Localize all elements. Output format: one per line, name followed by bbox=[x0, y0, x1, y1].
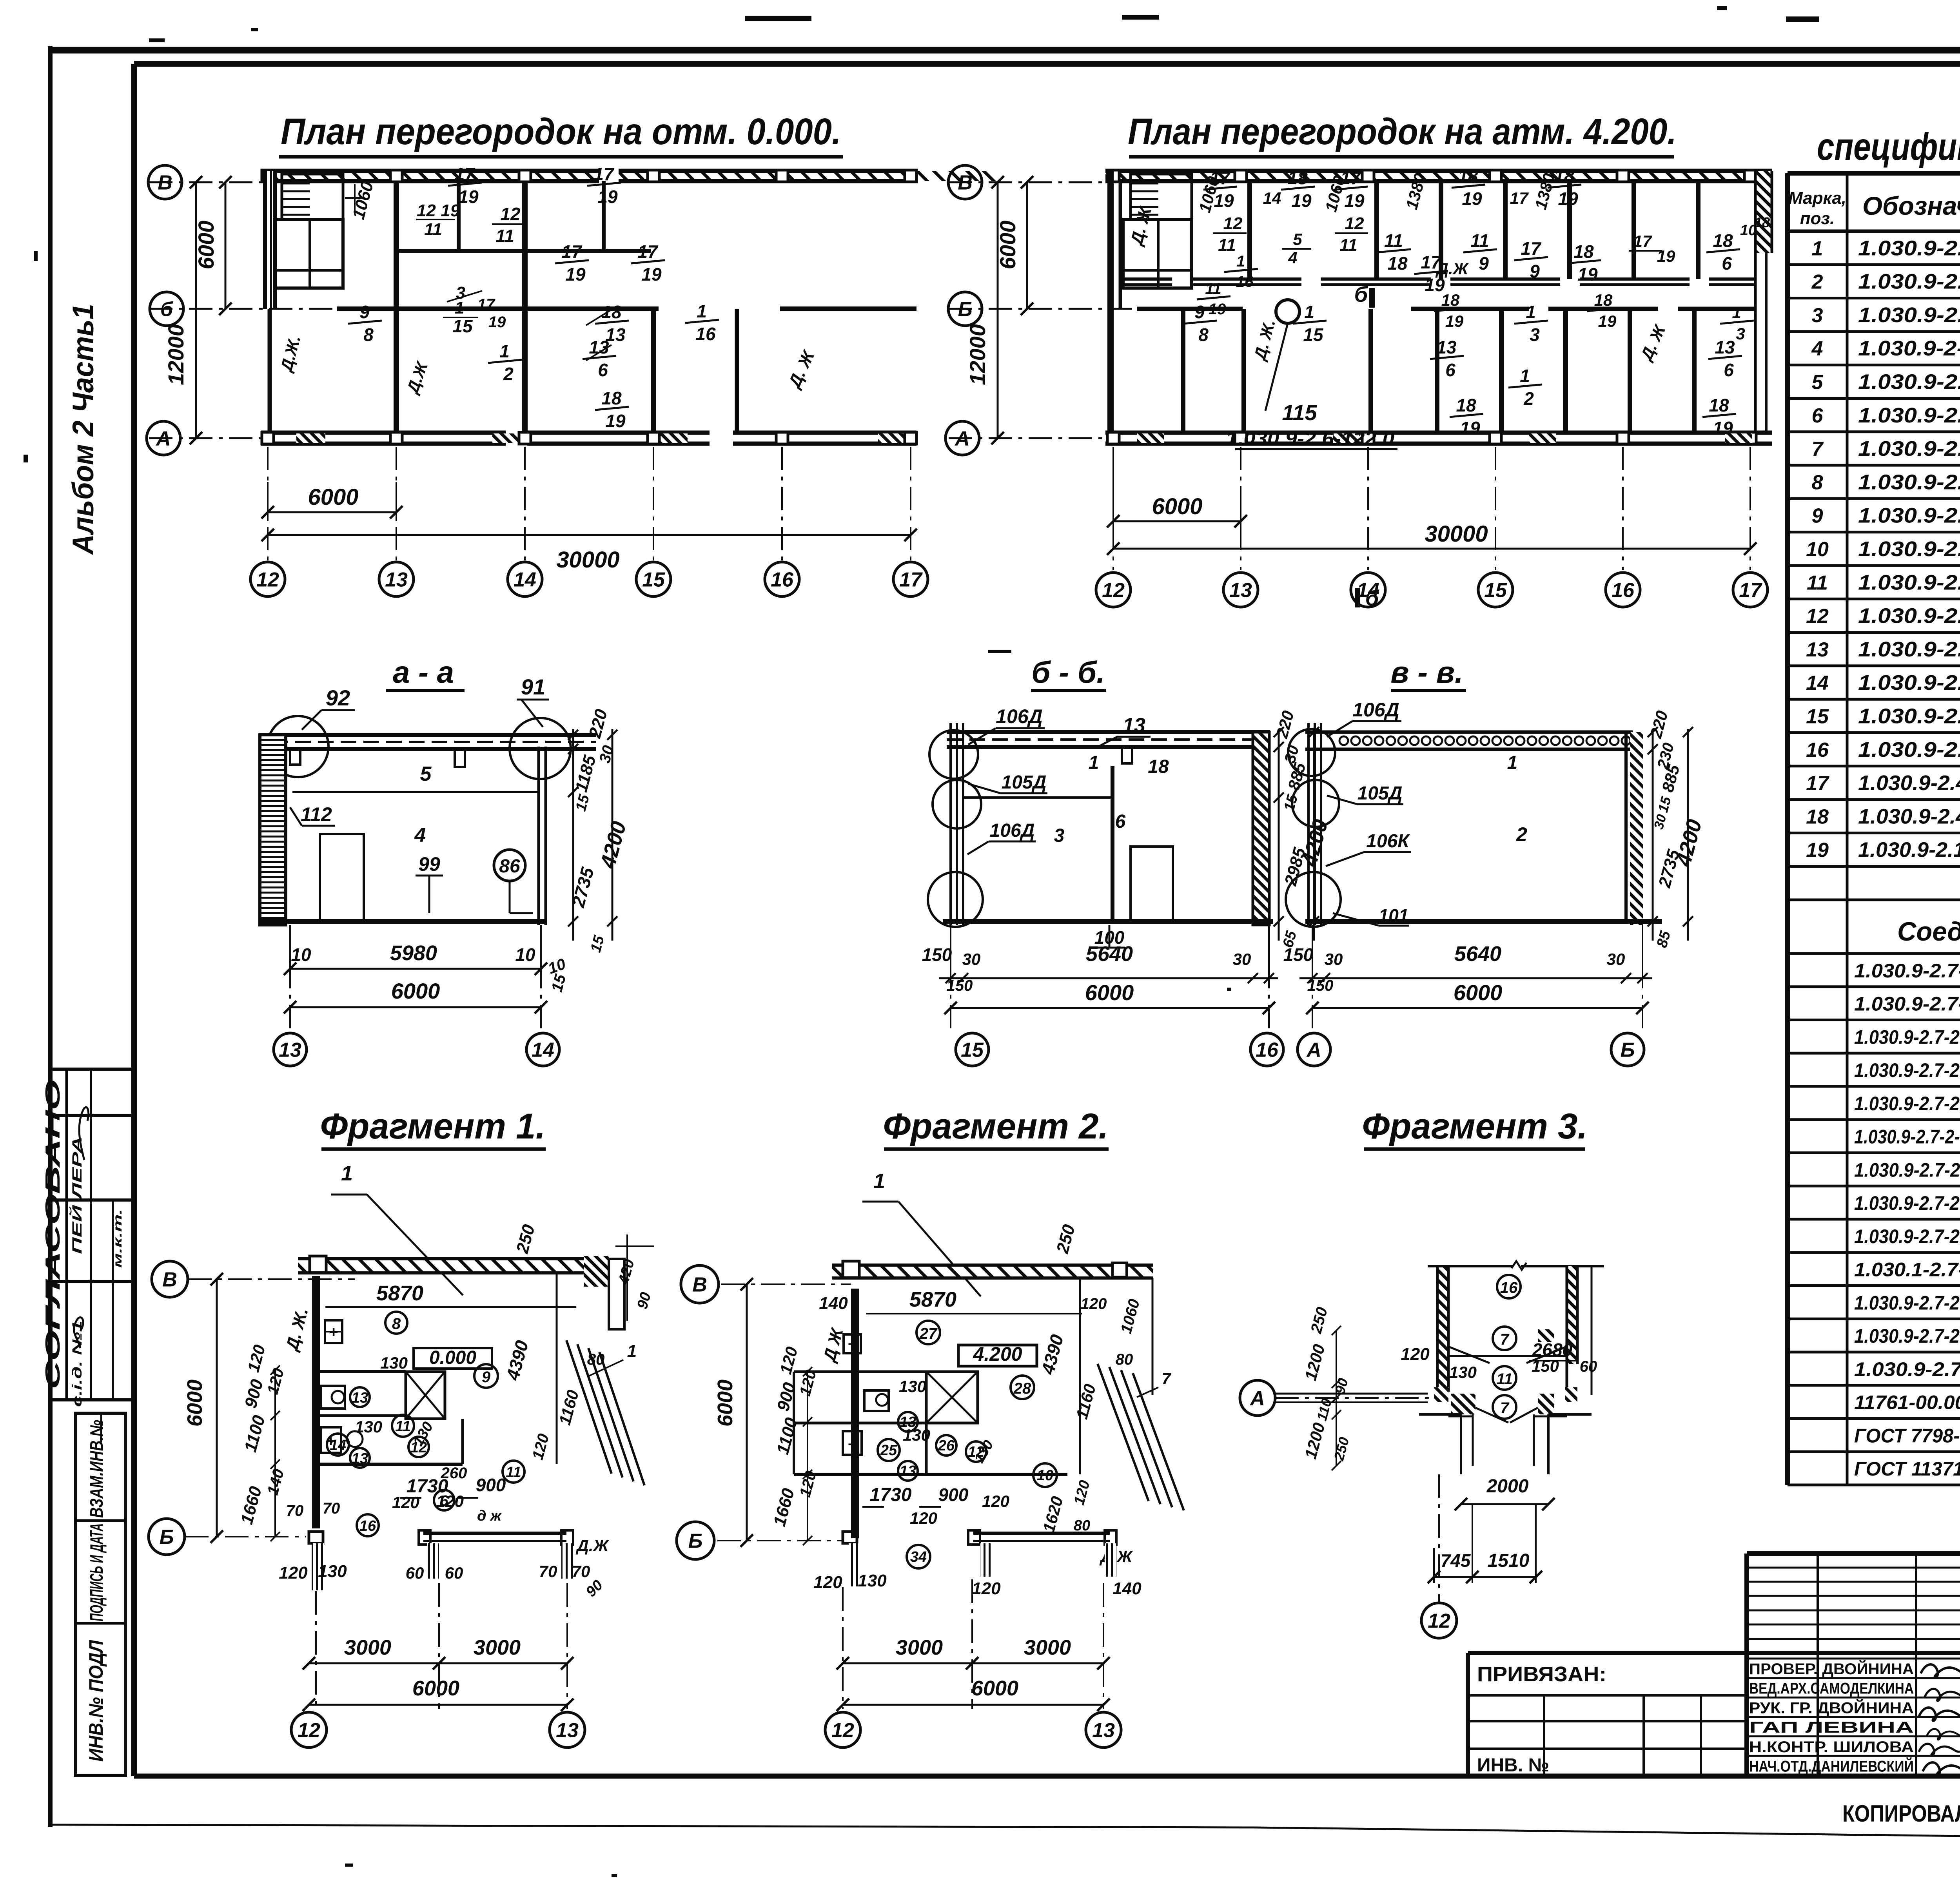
svg-text:6000: 6000 bbox=[183, 1380, 207, 1427]
svg-text:18: 18 bbox=[1806, 805, 1829, 828]
svg-text:1.030.9-2.1-01.0: 1.030.9-2.1-01.0 bbox=[1858, 270, 1960, 294]
section v-v right dimension stack bbox=[1652, 729, 1654, 941]
svg-text:80: 80 bbox=[587, 1351, 605, 1368]
svg-text:105Д: 105Д bbox=[1002, 772, 1047, 793]
plan1 left dimension 6000 bbox=[225, 182, 227, 309]
svg-text:12000: 12000 bbox=[163, 324, 188, 385]
svg-text:1510: 1510 bbox=[1488, 1550, 1530, 1571]
svg-text:745: 745 bbox=[1441, 1550, 1471, 1571]
fragment 1 fixtures bbox=[325, 1320, 342, 1343]
svg-text:1.030.9-2.7-2-0.17.0: 1.030.9-2.7-2-0.17.0 bbox=[1854, 993, 1960, 1015]
svg-text:1.030.9-2.4-12КМ: 1.030.9-2.4-12КМ bbox=[1858, 805, 1960, 828]
svg-text:1.030.9-2.7-2-0.16.0: 1.030.9-2.7-2-0.16.0 bbox=[1854, 960, 1960, 982]
svg-text:14: 14 bbox=[1806, 672, 1829, 694]
svg-text:13: 13 bbox=[1092, 1719, 1115, 1742]
fragment 3 left chain bbox=[1336, 1331, 1337, 1466]
section v-v bottom dims bbox=[1312, 925, 1313, 988]
svg-text:19: 19 bbox=[1344, 190, 1365, 211]
svg-text:12: 12 bbox=[1806, 605, 1829, 628]
svg-text:19: 19 bbox=[605, 411, 626, 431]
svg-text:17: 17 bbox=[593, 164, 615, 184]
section b-b ceiling slab bbox=[947, 730, 1270, 734]
svg-text:12: 12 bbox=[1345, 214, 1364, 233]
svg-text:17: 17 bbox=[561, 241, 583, 262]
svg-text:б: б bbox=[1365, 586, 1379, 610]
svg-text:10: 10 bbox=[1037, 1467, 1053, 1484]
svg-text:1.030.9-2.1-07.0: 1.030.9-2.1-07.0 bbox=[1858, 571, 1960, 594]
svg-text:13: 13 bbox=[900, 1463, 916, 1479]
fragment 1 left dim 6000 bbox=[216, 1279, 218, 1537]
svg-text:3000: 3000 bbox=[1024, 1636, 1071, 1659]
fragment 3 corridor below bbox=[1460, 1414, 1462, 1474]
svg-text:11: 11 bbox=[424, 220, 442, 239]
section a-a left wall bbox=[260, 735, 286, 925]
svg-text:900: 900 bbox=[938, 1485, 969, 1505]
svg-text:12: 12 bbox=[831, 1719, 854, 1742]
fragment 1 circled 8 9 bbox=[385, 1312, 407, 1334]
svg-text:1.030.9-2.1-05.0: 1.030.9-2.1-05.0 bbox=[1858, 370, 1960, 394]
svg-text:+: + bbox=[329, 1323, 338, 1341]
svg-text:14: 14 bbox=[330, 1437, 346, 1454]
svg-text:Д.Ж: Д.Ж bbox=[576, 1536, 610, 1555]
fragment 1 bottom dims bbox=[315, 1591, 317, 1709]
svg-text:17: 17 bbox=[1521, 238, 1542, 259]
svg-text:4.200: 4.200 bbox=[973, 1343, 1022, 1365]
svg-text:1.030.9-2.7-2-0.16.0-06: 1.030.9-2.7-2-0.16.0-06 bbox=[1854, 1093, 1960, 1115]
svg-text:17: 17 bbox=[637, 241, 659, 262]
svg-text:ГАП ЛЕВИНА: ГАП ЛЕВИНА bbox=[1749, 1719, 1914, 1736]
svg-text:10: 10 bbox=[515, 944, 535, 965]
svg-text:Фрагмент 2.: Фрагмент 2. bbox=[883, 1106, 1109, 1146]
svg-text:9: 9 bbox=[1530, 261, 1540, 281]
svg-text:17: 17 bbox=[1633, 232, 1652, 250]
svg-text:2: 2 bbox=[1523, 388, 1534, 409]
svg-text:16: 16 bbox=[1612, 579, 1635, 602]
svg-text:НАЧ.ОТД.ДАНИЛЕВСКИЙ: НАЧ.ОТД.ДАНИЛЕВСКИЙ bbox=[1749, 1757, 1914, 1775]
fragment 1 left dim chain bbox=[274, 1370, 276, 1537]
svg-text:15: 15 bbox=[642, 569, 665, 591]
section v-v right wall bbox=[1624, 732, 1628, 921]
svg-text:18: 18 bbox=[601, 388, 622, 408]
svg-text:КОПИРОВАЛ: ЛОГИНОВА: КОПИРОВАЛ: ЛОГИНОВА bbox=[1842, 1800, 1960, 1827]
svg-text:15: 15 bbox=[961, 1039, 984, 1062]
svg-text:1.030.9-2.7-2-0.16.0-02: 1.030.9-2.7-2-0.16.0-02 bbox=[1854, 1026, 1960, 1048]
svg-text:4: 4 bbox=[1288, 248, 1297, 267]
svg-text:Марка,: Марка, bbox=[1788, 189, 1846, 208]
svg-text:ГОСТ 11371-78: ГОСТ 11371-78 bbox=[1854, 1458, 1960, 1480]
svg-text:19: 19 bbox=[1214, 190, 1234, 211]
fragment 2 top wall bbox=[832, 1265, 1153, 1278]
plan1 left dimension 12000 bbox=[195, 182, 197, 438]
svg-text:0.000: 0.000 bbox=[429, 1347, 476, 1368]
svg-text:18: 18 bbox=[1456, 395, 1476, 415]
svg-text:106Д: 106Д bbox=[996, 705, 1043, 727]
svg-text:9: 9 bbox=[1194, 302, 1205, 322]
svg-text:17: 17 bbox=[1510, 189, 1529, 207]
svg-text:17: 17 bbox=[1210, 168, 1231, 188]
svg-text:7: 7 bbox=[1812, 438, 1824, 460]
svg-text:19: 19 bbox=[1209, 301, 1226, 318]
plan2 stair cluster bbox=[1123, 219, 1192, 288]
svg-text:17: 17 bbox=[1806, 772, 1829, 795]
svg-text:1: 1 bbox=[1304, 302, 1314, 322]
svg-text:16: 16 bbox=[1806, 739, 1829, 761]
plan1 left axis circle A bbox=[147, 421, 180, 455]
svg-text:13: 13 bbox=[1436, 337, 1457, 357]
fragment 3 axis A bbox=[1240, 1380, 1275, 1416]
svg-text:7: 7 bbox=[1500, 1331, 1510, 1348]
svg-text:6000: 6000 bbox=[391, 979, 440, 1003]
svg-text:5: 5 bbox=[420, 763, 432, 785]
svg-text:План перегородок на отм. 0.000: План перегородок на отм. 0.000. bbox=[281, 111, 841, 152]
svg-text:В: В bbox=[958, 172, 973, 194]
section b-b partition and door bbox=[1111, 766, 1114, 921]
section b-b right wall bbox=[1253, 732, 1269, 925]
svg-text:3000: 3000 bbox=[344, 1636, 391, 1659]
svg-text:12: 12 bbox=[1428, 1610, 1450, 1633]
svg-text:1.030.9-2.7-2-1.214.0-01: 1.030.9-2.7-2-1.214.0-01 bbox=[1854, 1126, 1960, 1148]
svg-text:17: 17 bbox=[1340, 168, 1361, 188]
svg-text:120: 120 bbox=[279, 1563, 308, 1583]
svg-text:18: 18 bbox=[1441, 291, 1460, 309]
plan2 left axis circles bbox=[948, 165, 982, 199]
svg-text:11: 11 bbox=[1205, 280, 1221, 297]
outer sheet border top bbox=[48, 47, 1960, 54]
fragment 2 fixtures bbox=[844, 1334, 861, 1353]
svg-text:1.030.9-2.1-09.0: 1.030.9-2.1-09.0 bbox=[1858, 604, 1960, 628]
svg-text:План перегородок на атм. 4.200: План перегородок на атм. 4.200. bbox=[1128, 111, 1677, 152]
svg-text:6000: 6000 bbox=[1085, 980, 1134, 1005]
svg-text:106Д: 106Д bbox=[1352, 699, 1399, 721]
svg-text:150: 150 bbox=[1532, 1357, 1559, 1375]
svg-text:140: 140 bbox=[1112, 1579, 1142, 1598]
svg-text:60: 60 bbox=[445, 1564, 463, 1582]
svg-text:25: 25 bbox=[880, 1442, 897, 1459]
svg-text:13: 13 bbox=[1806, 638, 1829, 661]
svg-text:30: 30 bbox=[962, 950, 981, 968]
svg-text:б: б bbox=[160, 298, 174, 321]
section v-v floor bbox=[1305, 919, 1662, 924]
svg-text:2000: 2000 bbox=[1486, 1476, 1529, 1497]
svg-text:16: 16 bbox=[359, 1518, 376, 1534]
svg-text:1.030.9-2.1-07.0: 1.030.9-2.1-07.0 bbox=[1858, 470, 1960, 494]
svg-text:105Д: 105Д bbox=[1357, 783, 1403, 804]
svg-text:11: 11 bbox=[1807, 571, 1828, 594]
svg-text:6: 6 bbox=[598, 360, 608, 380]
svg-text:12: 12 bbox=[256, 569, 279, 591]
svg-text:РУК. ГР. ДВОЙНИНА: РУК. ГР. ДВОЙНИНА bbox=[1749, 1699, 1914, 1717]
svg-text:1: 1 bbox=[455, 298, 464, 317]
svg-text:Д.Ж: Д.Ж bbox=[1436, 259, 1469, 278]
section a-a door bbox=[320, 834, 364, 921]
svg-text:30: 30 bbox=[1607, 950, 1625, 968]
fragment 1 partitions bbox=[316, 1370, 406, 1373]
svg-text:16: 16 bbox=[771, 569, 794, 591]
svg-text:120: 120 bbox=[972, 1579, 1001, 1598]
svg-text:9: 9 bbox=[1812, 505, 1823, 528]
svg-text:12 19: 12 19 bbox=[417, 201, 460, 220]
svg-text:150: 150 bbox=[1307, 977, 1334, 994]
svg-text:1.030.9-2.1-01.0: 1.030.9-2.1-01.0 bbox=[1858, 738, 1960, 761]
fragment 3 circled 11 bbox=[1493, 1366, 1516, 1390]
svg-text:112: 112 bbox=[301, 803, 332, 825]
fragment 2 left dim chain bbox=[807, 1372, 808, 1541]
svg-text:8: 8 bbox=[1812, 471, 1823, 494]
svg-text:13: 13 bbox=[279, 1039, 301, 1062]
svg-text:13: 13 bbox=[352, 1450, 368, 1467]
svg-text:130: 130 bbox=[380, 1354, 408, 1372]
svg-text:14: 14 bbox=[514, 569, 536, 591]
fragment 1 elevation 0.000 bbox=[414, 1348, 492, 1369]
svg-text:11: 11 bbox=[495, 226, 514, 246]
section b-b right dimension stack bbox=[1278, 729, 1280, 941]
fragment 2 axis circle B bbox=[677, 1522, 714, 1559]
fragment 3 chevron joints bbox=[1448, 1347, 1490, 1363]
svg-text:Фрагмент 1.: Фрагмент 1. bbox=[320, 1106, 546, 1146]
svg-text:3000: 3000 bbox=[474, 1636, 521, 1659]
plan2 bottom dimension 6000 bbox=[1113, 520, 1241, 522]
svg-text:19: 19 bbox=[1598, 312, 1617, 330]
svg-text:1: 1 bbox=[1732, 303, 1741, 322]
svg-text:30000: 30000 bbox=[1425, 521, 1488, 547]
svg-text:18: 18 bbox=[1713, 230, 1733, 251]
svg-text:1.030.9-2.1-06.0: 1.030.9-2.1-06.0 bbox=[1858, 236, 1960, 260]
svg-text:1: 1 bbox=[499, 341, 510, 361]
svg-text:19: 19 bbox=[488, 314, 506, 331]
section v-v left column bbox=[1307, 723, 1310, 925]
svg-text:Обозначение: Обозначение bbox=[1862, 191, 1960, 220]
svg-text:14: 14 bbox=[532, 1039, 554, 1062]
svg-text:130: 130 bbox=[899, 1377, 926, 1396]
svg-text:16: 16 bbox=[1500, 1279, 1518, 1296]
svg-text:1: 1 bbox=[873, 1169, 885, 1193]
fragment 1 bottom axis circles bbox=[291, 1712, 327, 1748]
svg-text:поз.: поз. bbox=[1800, 209, 1835, 228]
svg-text:3: 3 bbox=[1812, 304, 1823, 327]
svg-text:15: 15 bbox=[1303, 324, 1324, 345]
fragment 1 circled numbers cluster bbox=[350, 1387, 370, 1407]
svg-text:13: 13 bbox=[589, 337, 609, 357]
svg-text:18: 18 bbox=[1458, 166, 1478, 186]
svg-text:150: 150 bbox=[922, 944, 952, 965]
fragment 2 left dim 6000 bbox=[746, 1284, 748, 1541]
section v-v axis circles bbox=[1312, 925, 1313, 1032]
fragment 3 circled 16 bbox=[1497, 1275, 1521, 1298]
svg-text:11: 11 bbox=[1218, 236, 1236, 255]
svg-text:ИНВ.№ ПОДЛ: ИНВ.№ ПОДЛ bbox=[85, 1639, 107, 1762]
svg-text:1: 1 bbox=[1526, 302, 1536, 322]
svg-text:3: 3 bbox=[1054, 825, 1065, 846]
svg-text:11: 11 bbox=[1384, 230, 1403, 251]
svg-text:13: 13 bbox=[1715, 337, 1735, 357]
drawing frame bbox=[134, 61, 1960, 67]
svg-text:13: 13 bbox=[1229, 579, 1252, 602]
fragment 1 axis B row bbox=[309, 1532, 323, 1543]
fragment 3 bottom axis circle 12 bbox=[1438, 1474, 1440, 1602]
svg-text:1: 1 bbox=[341, 1162, 353, 1185]
svg-text:5: 5 bbox=[1812, 371, 1824, 394]
svg-text:30: 30 bbox=[1325, 950, 1343, 968]
plan1 partitions bbox=[394, 181, 399, 433]
svg-text:18: 18 bbox=[1387, 253, 1408, 274]
svg-text:А: А bbox=[954, 428, 970, 450]
svg-text:1: 1 bbox=[697, 301, 707, 321]
svg-text:В: В bbox=[692, 1274, 707, 1296]
svg-text:120: 120 bbox=[813, 1573, 842, 1592]
svg-text:Б: Б bbox=[1621, 1039, 1635, 1062]
plan2 lower partitions bbox=[1181, 309, 1185, 433]
svg-text:13: 13 bbox=[556, 1719, 579, 1742]
svg-text:18: 18 bbox=[1709, 395, 1729, 415]
svg-text:120: 120 bbox=[1081, 1295, 1107, 1312]
svg-text:6000: 6000 bbox=[995, 221, 1020, 270]
plan1 left axis circle B bbox=[150, 292, 183, 326]
fragment 2 axis circle V bbox=[681, 1265, 719, 1303]
svg-text:28: 28 bbox=[1013, 1380, 1031, 1397]
svg-text:18: 18 bbox=[1287, 168, 1308, 188]
svg-text:1: 1 bbox=[1520, 366, 1530, 386]
svg-text:130: 130 bbox=[355, 1418, 382, 1436]
svg-text:19: 19 bbox=[1657, 247, 1675, 265]
fragment 2 right side stair hatch bbox=[1079, 1278, 1081, 1474]
svg-text:ПОДПИСЬ И ДАТА: ПОДПИСЬ И ДАТА bbox=[86, 1523, 107, 1621]
svg-text:6000: 6000 bbox=[194, 221, 218, 270]
svg-text:1.030.9-2.7-2-0.19.0-03: 1.030.9-2.7-2-0.19.0-03 bbox=[1854, 1225, 1960, 1247]
fragment 1 top wall bbox=[298, 1259, 608, 1273]
svg-text:А: А bbox=[1306, 1039, 1321, 1062]
svg-text:6000: 6000 bbox=[412, 1677, 459, 1700]
svg-text:1.030.9-2.7-2-0.33.0-03: 1.030.9-2.7-2-0.33.0-03 bbox=[1854, 1292, 1960, 1314]
svg-text:11761-00.00.000СБ: 11761-00.00.000СБ bbox=[1854, 1392, 1960, 1414]
svg-text:ИНВ. №: ИНВ. № bbox=[1477, 1755, 1549, 1776]
fragment 2 bottom axis circles bbox=[825, 1712, 860, 1748]
svg-text:Б: Б bbox=[688, 1530, 703, 1553]
svg-text:в - в.: в - в. bbox=[1390, 655, 1463, 689]
fragment 2 bottom dims bbox=[842, 1587, 844, 1709]
svg-text:10: 10 bbox=[1806, 538, 1829, 561]
section b-b floor bbox=[943, 919, 1273, 924]
svg-text:8: 8 bbox=[1198, 324, 1209, 345]
svg-text:91: 91 bbox=[521, 674, 545, 699]
svg-text:13: 13 bbox=[352, 1390, 368, 1406]
section a-a circled 86 bbox=[494, 850, 525, 881]
svg-text:150: 150 bbox=[1283, 944, 1314, 965]
svg-text:2: 2 bbox=[1516, 823, 1527, 845]
svg-text:1: 1 bbox=[627, 1341, 637, 1361]
left stamp strip (inv numbers) bbox=[75, 1413, 125, 1775]
svg-text:70: 70 bbox=[539, 1562, 557, 1581]
svg-text:106Д: 106Д bbox=[990, 820, 1035, 841]
title block signature grid bbox=[1747, 1567, 1960, 1569]
svg-text:8: 8 bbox=[363, 324, 374, 345]
fragment 1 axis circle V bbox=[152, 1261, 188, 1297]
specification table grid bbox=[1788, 171, 1960, 176]
section a-a floor bbox=[260, 919, 546, 924]
svg-text:6000: 6000 bbox=[1152, 494, 1202, 519]
svg-text:А: А bbox=[1249, 1387, 1265, 1410]
svg-text:12: 12 bbox=[1102, 579, 1125, 602]
svg-text:7: 7 bbox=[1161, 1369, 1171, 1388]
svg-text:19: 19 bbox=[641, 264, 662, 285]
svg-text:6000: 6000 bbox=[308, 484, 358, 510]
svg-text:19: 19 bbox=[1445, 312, 1464, 330]
svg-text:12: 12 bbox=[298, 1719, 320, 1742]
plan1 bottom wall (axis A) bbox=[261, 431, 506, 435]
svg-text:с.і.д. №1: с.і.д. №1 bbox=[70, 1321, 85, 1407]
svg-text:2: 2 bbox=[1811, 271, 1823, 294]
svg-text:ПРИВЯЗАН:: ПРИВЯЗАН: bbox=[1477, 1662, 1606, 1686]
svg-text:120: 120 bbox=[1401, 1345, 1430, 1364]
svg-text:1.030.9-2.1-11.0-01: 1.030.9-2.1-11.0-01 bbox=[1858, 838, 1960, 862]
svg-text:ГОСТ 7798-70: ГОСТ 7798-70 bbox=[1854, 1425, 1960, 1447]
svg-text:ПРОВЕР. ДВОЙНИНА: ПРОВЕР. ДВОЙНИНА bbox=[1749, 1660, 1914, 1678]
svg-text:12: 12 bbox=[1223, 214, 1243, 233]
fragment 2 elevation 4.200 bbox=[958, 1345, 1037, 1366]
svg-text:13: 13 bbox=[385, 569, 408, 591]
svg-text:1.030.9-2.1-09.0: 1.030.9-2.1-09.0 bbox=[1858, 504, 1960, 528]
svg-text:99: 99 bbox=[418, 853, 440, 875]
svg-text:11: 11 bbox=[395, 1418, 410, 1435]
svg-text:б - б.: б - б. bbox=[1031, 655, 1105, 689]
svg-text:В: В bbox=[162, 1269, 177, 1291]
svg-text:120: 120 bbox=[436, 1492, 464, 1510]
svg-text:19: 19 bbox=[565, 264, 586, 285]
svg-text:130: 130 bbox=[318, 1562, 347, 1581]
svg-text:16: 16 bbox=[1236, 273, 1254, 290]
svg-text:120: 120 bbox=[982, 1492, 1009, 1510]
fragment 2 room cluster bbox=[794, 1370, 926, 1373]
title block signatures bbox=[1921, 1664, 1960, 1678]
svg-text:70: 70 bbox=[323, 1500, 340, 1517]
svg-text:15: 15 bbox=[1806, 705, 1829, 728]
svg-text:19: 19 bbox=[458, 187, 479, 207]
svg-text:Фрагмент 3.: Фрагмент 3. bbox=[1362, 1106, 1588, 1146]
svg-text:13: 13 bbox=[1123, 714, 1145, 737]
svg-text:3: 3 bbox=[1736, 324, 1745, 343]
svg-text:92: 92 bbox=[326, 685, 350, 710]
svg-text:19: 19 bbox=[1462, 189, 1482, 209]
svg-text:30000: 30000 bbox=[556, 547, 619, 573]
svg-text:спецификация сборных перегород: спецификация сборных перегородок. bbox=[1817, 125, 1960, 168]
svg-text:11: 11 bbox=[1470, 230, 1489, 251]
svg-text:б: б bbox=[1354, 282, 1368, 306]
svg-text:1.030.9-2.7-2-0.53.0-01: 1.030.9-2.7-2-0.53.0-01 bbox=[1854, 1325, 1960, 1347]
svg-text:6: 6 bbox=[1115, 811, 1126, 832]
svg-text:900: 900 bbox=[476, 1475, 506, 1495]
svg-text:12000: 12000 bbox=[965, 324, 990, 385]
plan2 top wall bbox=[1105, 171, 1772, 181]
svg-text:18: 18 bbox=[1754, 214, 1770, 230]
svg-text:19: 19 bbox=[597, 187, 618, 207]
svg-text:5870: 5870 bbox=[376, 1282, 423, 1305]
plan2 corridor wall bbox=[1120, 277, 1172, 281]
svg-text:1.030.9-2.6-122.0: 1.030.9-2.6-122.0 bbox=[1226, 428, 1394, 450]
fragment 2 axis B row bbox=[843, 1532, 857, 1543]
svg-text:18: 18 bbox=[1594, 291, 1613, 309]
fragment 1 left wall bbox=[312, 1276, 320, 1528]
svg-text:9: 9 bbox=[359, 302, 370, 322]
section a-a bottom dims bbox=[289, 925, 291, 980]
svg-text:17: 17 bbox=[454, 164, 475, 184]
svg-text:60: 60 bbox=[1580, 1358, 1597, 1375]
scan noise bbox=[274, 48, 368, 53]
svg-text:18: 18 bbox=[1554, 166, 1574, 186]
svg-text:6: 6 bbox=[1724, 360, 1734, 380]
section b-b bottom dims bbox=[950, 925, 951, 988]
svg-text:1.030.9-2.1-09.0: 1.030.9-2.1-09.0 bbox=[1858, 671, 1960, 694]
svg-text:140: 140 bbox=[819, 1294, 848, 1313]
svg-text:12: 12 bbox=[500, 204, 521, 224]
